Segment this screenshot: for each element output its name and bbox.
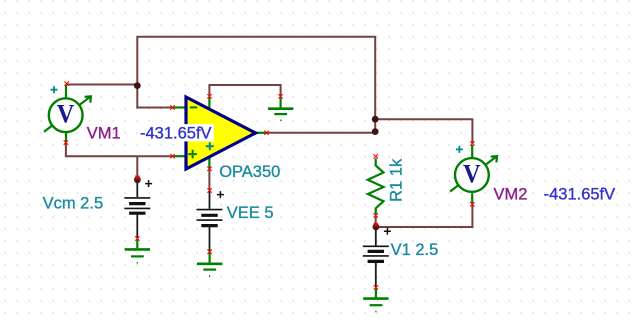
svg-text:VM1: VM1 xyxy=(87,124,121,142)
svg-text:V1 2.5: V1 2.5 xyxy=(391,241,439,259)
svg-text:V: V xyxy=(57,99,75,129)
svg-text:R1 1k: R1 1k xyxy=(387,158,405,202)
svg-text:V: V xyxy=(463,158,481,188)
svg-text:VM2: VM2 xyxy=(494,185,528,203)
svg-text:OPA350: OPA350 xyxy=(219,163,280,181)
svg-text:-431.65fV: -431.65fV xyxy=(140,124,212,142)
svg-text:Vcm 2.5: Vcm 2.5 xyxy=(43,194,104,212)
svg-text:VEE 5: VEE 5 xyxy=(227,204,274,222)
svg-text:-431.65fV: -431.65fV xyxy=(544,185,616,203)
